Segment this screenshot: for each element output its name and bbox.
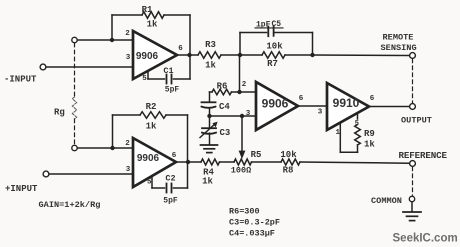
svg-text:3: 3 bbox=[318, 109, 323, 117]
svg-text:5: 5 bbox=[147, 179, 152, 187]
svg-text:6: 6 bbox=[172, 152, 177, 160]
svg-text:R8: R8 bbox=[283, 166, 294, 176]
svg-text:100Ω: 100Ω bbox=[231, 166, 251, 176]
svg-text:9910: 9910 bbox=[333, 96, 360, 110]
svg-text:R1: R1 bbox=[142, 5, 153, 15]
svg-text:5pF: 5pF bbox=[165, 86, 180, 95]
svg-text:2: 2 bbox=[242, 81, 247, 89]
svg-text:R5: R5 bbox=[251, 150, 262, 160]
svg-text:2: 2 bbox=[125, 140, 130, 148]
svg-text:3: 3 bbox=[246, 110, 251, 118]
svg-text:1k: 1k bbox=[147, 20, 158, 30]
svg-text:R2: R2 bbox=[146, 102, 157, 112]
svg-text:REMOTE: REMOTE bbox=[383, 33, 414, 43]
svg-text:3: 3 bbox=[126, 54, 131, 62]
svg-text:2: 2 bbox=[125, 30, 130, 38]
svg-text:OUTPUT: OUTPUT bbox=[401, 116, 432, 126]
svg-text:R6: R6 bbox=[217, 82, 228, 92]
svg-text:9906: 9906 bbox=[262, 97, 289, 111]
svg-text:R3: R3 bbox=[205, 40, 216, 50]
svg-text:SENSING: SENSING bbox=[381, 43, 417, 53]
svg-text:5: 5 bbox=[142, 75, 147, 83]
svg-text:1k: 1k bbox=[205, 61, 216, 71]
svg-text:C2: C2 bbox=[165, 174, 175, 184]
svg-text:R9: R9 bbox=[364, 129, 375, 139]
svg-text:3: 3 bbox=[126, 166, 131, 174]
svg-text:9906: 9906 bbox=[136, 51, 159, 62]
svg-text:1k: 1k bbox=[202, 177, 213, 187]
svg-text:R6=300: R6=300 bbox=[229, 206, 260, 216]
svg-text:Rg: Rg bbox=[54, 108, 65, 118]
svg-text:C3=0.3-2pF: C3=0.3-2pF bbox=[229, 217, 280, 227]
svg-text:SeekIC.com: SeekIC.com bbox=[393, 233, 458, 245]
svg-text:-INPUT: -INPUT bbox=[4, 75, 37, 85]
svg-text:REFERENCE: REFERENCE bbox=[399, 150, 448, 161]
svg-text:6: 6 bbox=[370, 95, 375, 103]
svg-text:C4=.033µF: C4=.033µF bbox=[229, 228, 275, 238]
svg-text:GAIN=1+2k/Rg: GAIN=1+2k/Rg bbox=[39, 200, 101, 210]
svg-text:5: 5 bbox=[355, 120, 359, 128]
svg-text:1k: 1k bbox=[364, 140, 375, 150]
svg-text:5pF: 5pF bbox=[163, 197, 178, 206]
svg-text:C3: C3 bbox=[220, 128, 231, 138]
svg-text:1: 1 bbox=[336, 129, 341, 137]
svg-text:9906: 9906 bbox=[137, 153, 160, 164]
svg-text:R7: R7 bbox=[267, 59, 278, 69]
svg-text:COMMON: COMMON bbox=[371, 196, 402, 206]
svg-text:+INPUT: +INPUT bbox=[5, 184, 38, 194]
svg-text:C1: C1 bbox=[163, 66, 173, 76]
svg-text:10k: 10k bbox=[280, 150, 297, 160]
svg-text:10k: 10k bbox=[266, 42, 283, 52]
svg-text:1k: 1k bbox=[146, 122, 157, 132]
svg-text:6: 6 bbox=[178, 45, 183, 53]
svg-text:6: 6 bbox=[299, 95, 304, 103]
svg-text:C4: C4 bbox=[219, 102, 230, 112]
